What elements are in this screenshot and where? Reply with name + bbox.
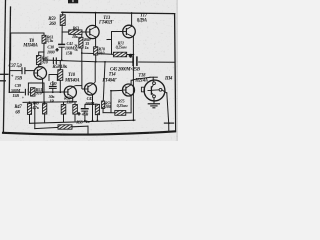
label R47 xyxy=(14,105,22,115)
transistor T12 xyxy=(85,62,97,121)
T15 emitter long vertical xyxy=(132,37,134,121)
top supply bus xyxy=(62,12,175,13)
label R59 xyxy=(48,17,56,27)
resistor R51 xyxy=(31,88,36,96)
label T14 xyxy=(101,72,116,83)
paper background xyxy=(0,0,178,150)
R46 bottom to T8 collector xyxy=(38,65,40,67)
transistor T13 xyxy=(86,25,99,38)
input stub 2 xyxy=(0,80,5,82)
resistor bottoms xyxy=(29,114,31,123)
label R74 xyxy=(105,100,112,109)
R63 tap xyxy=(62,31,69,33)
label T17 xyxy=(137,14,148,24)
R70 bottom to rail xyxy=(95,55,97,62)
label T18 xyxy=(134,73,148,83)
resistor R63 xyxy=(69,30,82,35)
C37 input wire xyxy=(10,70,22,72)
T14 base feed xyxy=(103,62,131,113)
capacitor C43 xyxy=(78,104,98,120)
label R49 xyxy=(31,101,40,110)
bottom ground bus xyxy=(3,131,176,134)
resistor R75 xyxy=(115,111,126,116)
label R70 xyxy=(98,46,105,55)
wire2 with R55 xyxy=(35,127,58,128)
page edge shading xyxy=(176,0,178,141)
top edge component stub xyxy=(68,0,78,3)
transistor T8 xyxy=(34,67,47,80)
base wire xyxy=(112,31,124,33)
label C39 xyxy=(11,83,25,100)
resistor R49 xyxy=(43,104,47,114)
wire1 xyxy=(30,120,136,123)
label T10 xyxy=(64,73,80,84)
transistor T18 xyxy=(141,80,165,101)
driver coupling wire down to T12 base xyxy=(81,48,83,89)
resistor R61 xyxy=(42,35,46,43)
capacitor C39 xyxy=(25,89,28,96)
resistor R53 xyxy=(73,105,78,115)
label R51 xyxy=(36,87,43,96)
emitter down to R70 xyxy=(95,37,97,47)
feedback loop xyxy=(28,83,44,104)
label T13 xyxy=(98,16,113,26)
branch to R46 xyxy=(39,52,44,56)
right border xyxy=(175,14,176,131)
label C41 xyxy=(65,41,75,55)
resistor R74 xyxy=(102,101,105,108)
label R50 xyxy=(49,94,56,103)
resistor R59 xyxy=(60,15,65,26)
capacitor C38 xyxy=(53,57,56,64)
T10 collector join xyxy=(75,85,81,87)
label C43 xyxy=(81,96,95,116)
left border xyxy=(3,0,5,132)
T15 collector up xyxy=(131,13,133,26)
feed wire to T18 xyxy=(133,77,157,82)
C39 input wire xyxy=(9,91,24,93)
label R63 xyxy=(72,25,79,39)
label R69 xyxy=(84,37,91,50)
resistor R47 xyxy=(27,104,31,115)
transistor T15 xyxy=(123,25,136,38)
collector up xyxy=(95,13,97,28)
capacitor C41 xyxy=(56,44,65,53)
resistor R70 xyxy=(94,47,98,55)
label C37 xyxy=(9,64,23,82)
label R46 xyxy=(42,56,49,65)
R51 to T10 base xyxy=(35,91,65,93)
resistor R58 xyxy=(58,60,63,92)
label C38 xyxy=(47,44,56,54)
drops xyxy=(29,102,31,103)
resistor R73 xyxy=(95,104,99,120)
R61 bottom to rail xyxy=(43,43,45,60)
capacitor C37 xyxy=(22,67,25,74)
resistor R71 xyxy=(113,52,126,57)
label R75 xyxy=(117,99,128,108)
junction dots xyxy=(29,12,170,125)
resistor R55 xyxy=(58,125,72,129)
ground under T18 xyxy=(148,98,160,108)
label T8 xyxy=(22,39,38,49)
T8 emitter down to fb node xyxy=(42,79,44,93)
label R71 xyxy=(116,40,127,49)
connector line to bottom xyxy=(162,90,174,132)
transistor T10 xyxy=(64,86,76,102)
label R61 xyxy=(46,35,55,44)
resistor R64 vertical with side label xyxy=(74,34,83,51)
emitter bus y102 xyxy=(23,101,77,104)
resistor R46 xyxy=(36,56,41,65)
splitter vertical xyxy=(111,32,113,55)
label R52 xyxy=(64,96,73,105)
capacitor C40 branch xyxy=(49,75,57,93)
base wire from R63 xyxy=(82,31,86,33)
scan noise xyxy=(0,0,177,141)
resistor R52 xyxy=(61,105,66,115)
bias loop wire xyxy=(11,33,44,60)
transistor T14 xyxy=(122,80,134,113)
capacitor C45 xyxy=(129,55,137,66)
input stub 1 xyxy=(0,73,8,75)
left inner line xyxy=(9,7,10,92)
W1 wire xyxy=(82,52,94,54)
